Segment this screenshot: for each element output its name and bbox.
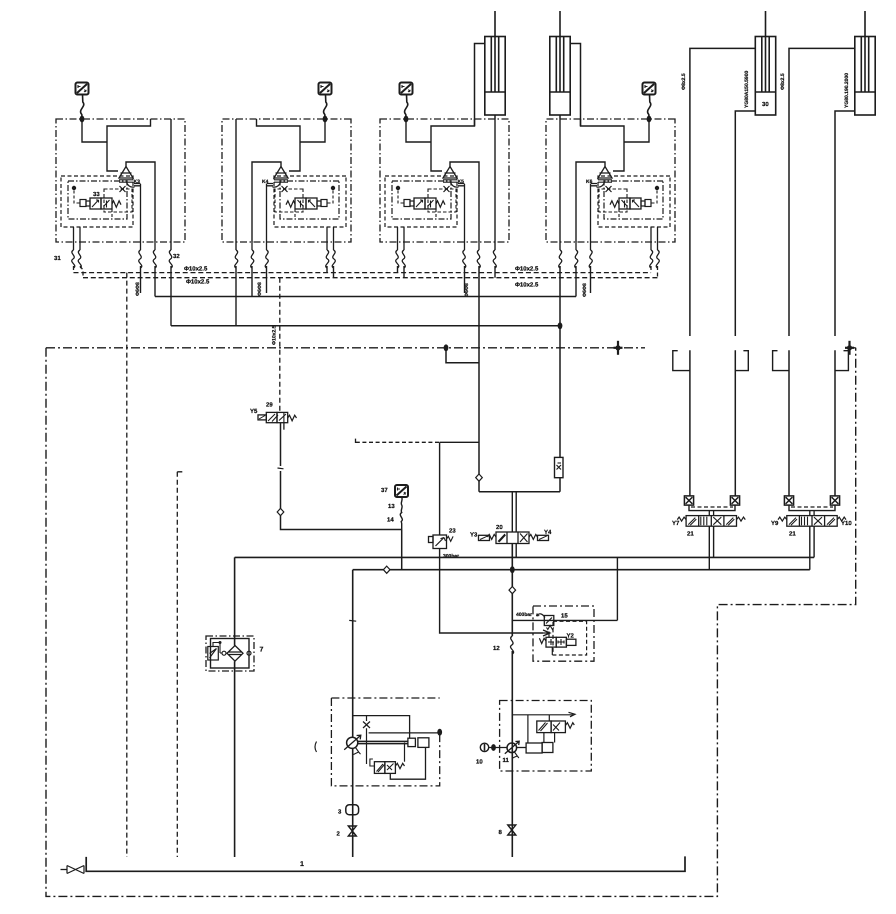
wire D piston-side lower (834, 350, 836, 496)
block3 long wire down to center trunk (478, 266, 480, 492)
svg-text:30: 30 (762, 101, 769, 108)
svg-text:300bar: 300bar (443, 554, 459, 560)
svg-text:Y2: Y2 (567, 633, 575, 640)
svg-text:YG80.190.2000: YG80.190.2000 (844, 73, 850, 108)
wire C piston-side lower (734, 350, 736, 496)
svg-text:Φ6Φ8: Φ6Φ8 (257, 282, 263, 296)
svg-text:Y7: Y7 (672, 520, 680, 527)
hose S on main riser (510, 636, 513, 654)
valve 15 feed wire (512, 619, 617, 621)
svg-text:11: 11 (503, 757, 510, 764)
directional valve 21 (Y9) (778, 516, 846, 527)
tank return wire 1 (86, 856, 685, 871)
svg-text:14: 14 (387, 517, 394, 524)
bracket stub C piston (735, 351, 748, 371)
wire from L1 to valve 15 feed (616, 557, 618, 620)
svg-text:1: 1 (300, 861, 304, 868)
wire from boundary dot to long wire (446, 348, 479, 363)
Y9 group bridge wires (789, 505, 835, 510)
gauge 10 circle (480, 743, 488, 751)
system boundary dash-dot box (46, 348, 856, 897)
svg-text:23: 23 (449, 528, 456, 535)
dashed pilot drop to valve 29 (279, 278, 281, 413)
limit valve block 2 (mirrored) (222, 119, 351, 268)
pressure test gauge 1 (76, 83, 89, 95)
svg-text:Φ6Φ8: Φ6Φ8 (582, 283, 588, 297)
limit valve block 1 (56, 119, 185, 268)
cylinder D piston-side wire (835, 111, 855, 336)
pressure test gauge 4 (643, 83, 656, 95)
main pump riser wire (511, 544, 513, 858)
pump2 outlet wire (517, 747, 527, 749)
pump 1 variable arrow (344, 735, 361, 750)
hose tick on valve29 wire (278, 467, 284, 470)
block4 wire to manifold line A (575, 266, 577, 297)
valve 20 riser wires (512, 492, 516, 532)
bracket stub pair C (673, 351, 690, 371)
shutoff valve 2 (348, 826, 356, 836)
solenoid valve group Y9 couplers (784, 496, 793, 505)
plugged port X pump1 (363, 716, 370, 764)
pressure manifold L2 (353, 569, 810, 571)
svg-text:Φ8x2.5: Φ8x2.5 (681, 73, 687, 90)
return riser through filter (234, 557, 236, 857)
hose below gauge 37 (400, 498, 402, 530)
bus line 2 dashed Φ10x2.5 (83, 277, 658, 279)
pump 2 variable arrow (505, 741, 519, 754)
cross junction marker right (845, 341, 854, 355)
block1 wire to manifold line B (170, 266, 172, 326)
node dot gauge 2 (323, 116, 328, 123)
svg-text:K6: K6 (586, 179, 593, 185)
cylinder B rod-side port wire (570, 44, 580, 127)
cross junction marker left (614, 341, 623, 355)
check component on block4 through wire (555, 457, 564, 477)
cylinder A bottom port wire (494, 115, 496, 119)
limit valve block 4 (mirrored) (546, 119, 675, 268)
svg-text:20: 20 (496, 524, 503, 531)
block1 wire to manifold line A (154, 266, 156, 297)
hose gauge 4 (648, 95, 651, 120)
svg-text:33: 33 (93, 191, 100, 198)
cylinder C rod-side wire (690, 48, 755, 336)
dashed pilot wire to relief 23 (356, 437, 440, 443)
svg-text:K5: K5 (458, 179, 465, 185)
svg-text:21: 21 (789, 531, 796, 538)
block3 K wire (464, 266, 466, 293)
svg-text:10: 10 (476, 759, 483, 766)
svg-text:Φ8x2.5: Φ8x2.5 (780, 73, 786, 90)
solenoid valve Y2 (539, 637, 576, 647)
manifold line B (171, 325, 560, 327)
svg-text:29: 29 (266, 402, 273, 409)
svg-text:Y10: Y10 (841, 520, 852, 527)
svg-text:Y5: Y5 (250, 408, 258, 415)
valve 20 lower wires (512, 544, 516, 570)
block3 drop wires to buses (398, 266, 405, 278)
pilot relief 15 (537, 613, 554, 629)
svg-text:Y4: Y4 (544, 529, 552, 536)
svg-text:31: 31 (54, 255, 61, 262)
LS sense wire (404, 743, 406, 762)
pump2 compensator boxes (526, 743, 542, 753)
cylinder A rod-side port wire (475, 44, 485, 127)
long dashed pilot drop 1 (126, 273, 128, 857)
wire gauge37 node down to pressure manifold (401, 530, 403, 570)
wire valve29 output down (281, 423, 402, 530)
pressure test gauge 37 (395, 485, 408, 497)
shutoff valve 8 (508, 825, 516, 835)
bus line 1 dashed Φ10x2.5 (74, 272, 652, 274)
pump 1 drain (354, 748, 361, 755)
svg-text:Φ10x2.5: Φ10x2.5 (186, 279, 210, 286)
Y7 valve outlet wires (709, 526, 713, 570)
hose arc left of pump1 (315, 742, 317, 753)
wire relief23 drop (439, 442, 441, 535)
svg-text:32: 32 (173, 253, 180, 260)
hose gauge 3 (405, 95, 408, 120)
Y9 valve outlet wires (810, 526, 814, 570)
svg-text:Φ10x2.5: Φ10x2.5 (184, 266, 208, 273)
svg-text:37: 37 (381, 487, 388, 494)
pump2 upper wire with arrow (512, 712, 575, 717)
block1 K wire (140, 266, 142, 293)
solenoid valve group Y7 couplers (684, 496, 693, 505)
limit valve block 3 (380, 119, 509, 268)
manifold line A (155, 296, 576, 298)
diamond junction on main riser (509, 587, 516, 594)
filter block 7 dash box (206, 636, 254, 671)
svg-text:400bar: 400bar (516, 612, 532, 618)
node dot gauge 4 (647, 116, 652, 123)
block3 through wire (cyl A piston) to bus2 (494, 266, 496, 278)
cylinder D rod-side wire (789, 48, 855, 336)
svg-text:K3: K3 (134, 179, 141, 185)
arrowhead into valve 15 (543, 630, 550, 636)
bracket stub D rod (773, 351, 789, 371)
pilot wire with dot pump1 (369, 732, 440, 734)
block2 wire to manifold line B (235, 266, 237, 326)
pump group 2 dash-dot box (500, 701, 592, 772)
valve 15 inner dashed box (553, 621, 587, 655)
hose gauge 2 (324, 95, 327, 120)
pressure test gauge 2 (319, 83, 332, 95)
svg-text:Φ10x2.5: Φ10x2.5 (515, 266, 539, 273)
svg-text:Φ10x2.5: Φ10x2.5 (272, 325, 278, 345)
svg-text:21: 21 (687, 531, 694, 538)
Y7 group dashed link (691, 506, 733, 508)
compensator boxes pump1 (408, 738, 416, 746)
gauge wire to pump 2 (489, 747, 507, 749)
block1 drop wires to buses (74, 266, 84, 278)
pump2 internal wires (528, 715, 555, 743)
junction dot on boundary (444, 344, 449, 351)
svg-text:Φ6Φ8: Φ6Φ8 (464, 283, 470, 297)
filter element diamond (227, 646, 243, 662)
node dot gauge 1 (80, 116, 85, 123)
svg-text:Y3: Y3 (470, 532, 478, 539)
wire D rod-side lower (788, 350, 790, 496)
Y9 group center drop (810, 511, 814, 516)
block4 through wire (cyl B piston) down (559, 266, 561, 492)
pump 1 riser wire (352, 570, 354, 857)
directional valve 21 (Y7) (677, 516, 745, 527)
svg-text:13: 13 (388, 503, 395, 510)
wire relief23 outlet down and to valve15 (440, 549, 543, 634)
center trunk wire (479, 491, 560, 493)
coupling 3 (346, 805, 359, 815)
cylinder D (855, 11, 875, 115)
block2 wire to manifold line A (251, 266, 253, 297)
cylinder C (30) (755, 11, 775, 115)
long dashed pilot drop 2 (177, 472, 183, 857)
filter inner box (211, 639, 250, 669)
cylinder B bottom port wire (559, 115, 561, 119)
relief valve 23 (429, 535, 454, 549)
wire C rod-side lower (689, 350, 691, 496)
valve 15 pilot block (533, 606, 594, 661)
bracket stub D piston (835, 351, 848, 371)
Y7 group center drop (709, 511, 713, 516)
cylinder A (485, 11, 505, 115)
junction dot main line on L2 (510, 566, 515, 573)
solenoid valve 29 (Y5) (258, 412, 297, 429)
LS valve pump1 (370, 759, 405, 773)
proportional valve 20 (479, 532, 549, 544)
wire relief15 to valve Y2 (549, 632, 552, 656)
diamond junction on L2 (383, 566, 390, 573)
svg-text:12: 12 (493, 645, 500, 652)
diamond junction on valve29 wire (277, 508, 284, 515)
svg-text:YG80A150.5900: YG80A150.5900 (744, 71, 750, 108)
diamond junction on block3 long wire (476, 474, 483, 481)
wire pilot to block3 long wire (440, 441, 479, 443)
svg-text:Φ10x2.5: Φ10x2.5 (515, 282, 539, 289)
cylinder B (550, 11, 570, 115)
block2 drop wires to buses (327, 266, 334, 278)
pump 2 circle (507, 743, 517, 753)
drain valve at tank (61, 866, 85, 874)
block2 K wire (266, 266, 268, 293)
cylinder C piston-side wire (735, 111, 755, 336)
svg-text:K4: K4 (262, 179, 269, 185)
block4 K wire (590, 266, 592, 293)
svg-text:Y9: Y9 (771, 520, 779, 527)
svg-text:7: 7 (260, 647, 264, 654)
filter bypass valve (208, 641, 251, 660)
hose gauge 1 (81, 95, 84, 120)
hose tick on pump1 riser (349, 619, 356, 622)
return manifold L1 (235, 556, 815, 558)
junction dot manifold B end (558, 322, 563, 329)
node dot gauge 3 (404, 116, 409, 123)
pressure test gauge 3 (400, 83, 413, 95)
pump2 control valve (537, 721, 575, 733)
pump 1 pressure wire double (358, 741, 408, 743)
svg-text:Φ6Φ8: Φ6Φ8 (135, 282, 141, 296)
Y7 group bridge wires (689, 505, 735, 510)
Y9 group dashed link (791, 506, 833, 508)
pump1 upper control loop (354, 716, 410, 739)
pump group 1 dash-dot box (331, 698, 439, 786)
block4 drop wires to bus ends (651, 266, 658, 278)
svg-text:15: 15 (561, 613, 568, 620)
pump 2 drain (513, 752, 519, 758)
LS valve lower loop (390, 747, 425, 779)
pump 1 circle (347, 737, 358, 748)
